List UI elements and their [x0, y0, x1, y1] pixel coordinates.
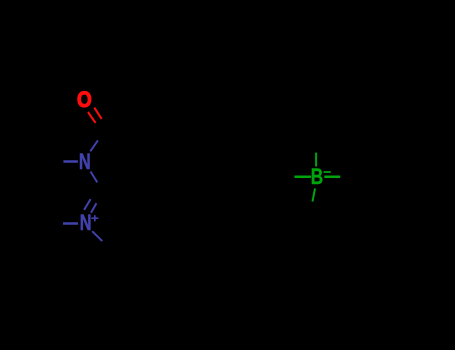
bond B-phenyl up half (green)	[315, 153, 317, 167]
charge minus on B	[324, 171, 331, 173]
svg-text:N: N	[79, 151, 91, 175]
bond B-phenyl right half (green)	[324, 176, 340, 179]
bond C1=O main half (red)	[94, 108, 101, 119]
charge plus on N+	[91, 215, 98, 221]
svg-text:O: O	[77, 89, 92, 112]
bond C2=N+ second line half (blue)	[91, 203, 96, 213]
bond N+-CH3 half (blue, horizontal left)	[63, 222, 78, 225]
svg-text:B: B	[311, 165, 323, 189]
bond B-phenyl down half (green)	[313, 189, 316, 202]
bond C2=N+ main half (blue)	[84, 199, 91, 210]
bond B-phenyl left half (green)	[294, 175, 311, 178]
bond N-C1 half (blue)	[90, 140, 98, 151]
bond N-C2 half (blue, down-right)	[91, 172, 98, 183]
svg-text:N: N	[80, 212, 92, 236]
bond N+-CH3 half (blue, down-right)	[92, 231, 102, 241]
bond N-CH3 half (blue, horizontal left)	[63, 160, 78, 163]
bond C1=O second line half (red)	[88, 112, 96, 123]
